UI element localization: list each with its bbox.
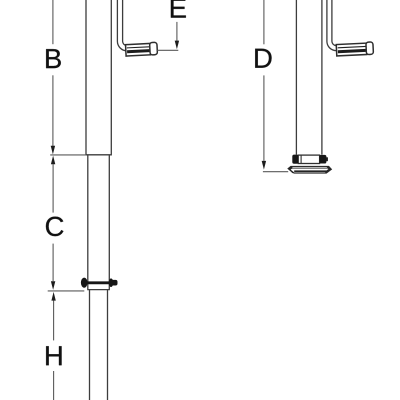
crank handle grip right jack: [336, 42, 373, 56]
bolt head right wingnut: [109, 278, 114, 287]
left jack drop leg: [90, 290, 108, 400]
extension line at foot: [263, 171, 288, 173]
B dimension line: [52, 0, 54, 44]
E leader line: [157, 49, 178, 51]
left jack second stage tube: [87, 155, 110, 290]
left jack outer tube: [85, 0, 112, 155]
crank handle grip left jack: [125, 42, 157, 56]
right jack tube: [296, 0, 322, 155]
crank arm right jack: [327, 0, 339, 51]
clamp bolt left jack: [84, 281, 113, 284]
E dimension arrow: [176, 22, 178, 41]
crank arm left jack: [117, 0, 130, 51]
pivot bolt head left: [292, 155, 298, 164]
extension line at collar bottom: [48, 290, 85, 292]
C dimension line: [51, 156, 55, 165]
label C: [46, 217, 63, 237]
foot pad right jack: [288, 167, 331, 174]
bolt head left: [81, 278, 88, 288]
pivot bolt head right: [319, 155, 326, 164]
extension line at tube bottom: [50, 154, 86, 156]
label D: [255, 49, 271, 68]
D dimension line: [263, 0, 265, 44]
pivot cylinder right jack: [298, 155, 319, 163]
H dimension line: [51, 292, 55, 301]
label H: [46, 346, 61, 365]
label E: [171, 0, 186, 18]
label B: [46, 49, 61, 68]
